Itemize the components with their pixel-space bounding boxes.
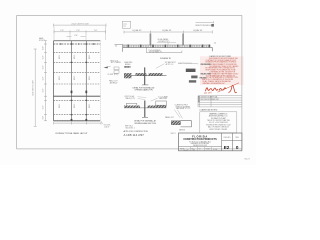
svg-text:SCHEME "A": SCHEME "A" [160, 57, 171, 60]
svg-text:7'-0": 7'-0" [94, 30, 98, 32]
svg-text:30'-0" OUT TO OUT: 30'-0" OUT TO OUT [32, 79, 34, 95]
svg-text:REV. PER RETURNED SET: REV. PER RETURNED SET [201, 99, 220, 101]
svg-text:8Z2.5: 8Z2.5 [89, 104, 91, 108]
svg-text:SHEETING ANGLE: SHEETING ANGLE [178, 62, 193, 65]
detail C deck line [124, 75, 167, 77]
svg-text:10-1-97: 10-1-97 [184, 149, 189, 151]
svg-text:CAMPBELL ENGINEERING INC.: CAMPBELL ENGINEERING INC. [202, 82, 226, 85]
detail D bracket right [156, 101, 167, 105]
detail C hatch center [136, 73, 147, 75]
svg-text:BY OTHERS: BY OTHERS [111, 62, 122, 64]
revision table [198, 96, 242, 107]
svg-text:7'-0": 7'-0" [60, 30, 64, 32]
red signature [206, 88, 219, 91]
svg-text:8" GIRT (TYP): 8" GIRT (TYP) [108, 74, 119, 76]
plan bay dimension line [54, 30, 106, 33]
svg-text:ANGLE: ANGLE [125, 63, 131, 66]
svg-text:ERECTION DWG. E-2: ERECTION DWG. E-2 [196, 25, 214, 27]
bottom edge ticks [55, 120, 98, 122]
elevation post 2 [182, 34, 184, 46]
small detail boxes right of plan [114, 67, 119, 70]
svg-text:8Z2.5: 8Z2.5 [59, 55, 61, 59]
sheet border [17, 16, 242, 149]
svg-text:LOADING: AS NOTED: LOADING: AS NOTED [199, 109, 217, 112]
svg-text:SEE PLAN: SEE PLAN [159, 97, 167, 100]
dark label box [186, 69, 196, 72]
svg-text:OPENING JAMB (TYP): OPENING JAMB (TYP) [134, 89, 153, 92]
eave strut band [123, 45, 211, 47]
svg-text:7'-0": 7'-0" [76, 30, 80, 32]
detail D bracket left [126, 103, 137, 105]
svg-text:DET. B: DET. B [179, 130, 185, 132]
plan interior column line 2 [85, 41, 87, 121]
svg-text:30 FT.J: 30 FT.J [171, 133, 176, 135]
svg-text:No.07: No.07 [245, 158, 251, 160]
purlin row dark top [54, 43, 101, 45]
svg-text:5'-0": 5'-0" [43, 55, 45, 59]
svg-text:DWG NO.: DWG NO. [224, 137, 232, 139]
project info box [200, 112, 237, 133]
svg-text:EQUAL SP.: EQUAL SP. [133, 29, 143, 32]
detail C hatch left [124, 73, 132, 75]
svg-text:1'-4: 1'-4 [115, 45, 118, 47]
svg-text:FURNISH TYPICAL PANEL LAYOUT: FURNISH TYPICAL PANEL LAYOUT [55, 132, 88, 135]
detail C hatch right [149, 73, 163, 75]
purlin seats on band [128, 45, 211, 48]
svg-text:8Z2.5: 8Z2.5 [74, 55, 76, 59]
svg-text:8Z2.5: 8Z2.5 [74, 76, 76, 80]
svg-text:3'-0": 3'-0" [43, 116, 45, 120]
detail B wall section [171, 121, 180, 125]
section arrow [104, 66, 109, 68]
framing plan outline [54, 41, 101, 121]
plan right edge (open) [99, 41, 101, 121]
purlin size labels in plan [59, 55, 91, 108]
svg-text:8Z2.5: 8Z2.5 [59, 104, 61, 108]
svg-text:Oct 1/97: Oct 1/97 [204, 91, 213, 95]
svg-text:0: 0 [236, 145, 239, 150]
svg-text:EQUAL SP.: EQUAL SP. [193, 29, 203, 32]
svg-text:1'-4: 1'-4 [214, 43, 217, 45]
svg-text:CONSTRUCTION PRODUCTS: CONSTRUCTION PRODUCTS [183, 138, 217, 141]
detail C post [144, 67, 146, 85]
svg-text:5'-0": 5'-0" [43, 105, 45, 109]
stamp pink wash [200, 56, 244, 85]
svg-text:BLDG NO. 1: BLDG NO. 1 [126, 128, 135, 130]
purlin clips [60, 43, 94, 115]
svg-text:REVIEWED: REVIEWED [201, 64, 212, 66]
left dimension line [44, 41, 47, 121]
svg-text:EQUAL SP.: EQUAL SP. [162, 29, 172, 32]
elevation dimension line [124, 31, 212, 34]
brace bracket below band [145, 47, 147, 52]
svg-text:OPENING HEAD SECTION: OPENING HEAD SECTION [134, 122, 157, 125]
svg-text:AT 12" O.C.: AT 12" O.C. [166, 63, 175, 66]
dark text fragment 2 [191, 76, 197, 79]
note top right [196, 21, 214, 23]
svg-text:8Z2.5: 8Z2.5 [59, 76, 61, 80]
purlin dashed rows [54, 52, 101, 114]
plan interior column line 1 [71, 41, 73, 121]
bottom dimension line [54, 122, 102, 125]
plan overall dimension [54, 24, 107, 27]
svg-text:8Z2.5: 8Z2.5 [89, 76, 91, 80]
svg-text:REVISE: REVISE [200, 78, 208, 80]
review stamp [202, 58, 239, 85]
svg-text:ERECTION BY OTHERS: ERECTION BY OTHERS [210, 129, 228, 131]
frame beam line [54, 95, 101, 97]
svg-text:4'-0": 4'-0" [43, 46, 45, 50]
dark text fragment 3 [189, 80, 196, 82]
right end post [211, 47, 213, 51]
legend box top [122, 21, 130, 28]
detail B trim profile [181, 121, 192, 127]
svg-text:5'-0": 5'-0" [43, 76, 45, 80]
svg-text:NONE: NONE [213, 149, 217, 151]
detail D deck line [124, 107, 166, 109]
elevation left end step [115, 43, 123, 45]
svg-text:A 1FB 114 2/97: A 1FB 114 2/97 [124, 133, 145, 137]
dimension extension lines [54, 26, 106, 40]
svg-text:AS REQD: AS REQD [110, 81, 118, 84]
TOS note [101, 121, 103, 124]
svg-text:TRACK (TYP): TRACK (TYP) [125, 97, 135, 100]
detail D post [144, 101, 146, 118]
detail C hatch below [124, 76, 132, 78]
svg-text:AT EA. PANEL PT.: AT EA. PANEL PT. [149, 50, 162, 53]
plan bottom edge [54, 120, 101, 122]
detail D deck hatch right [148, 106, 167, 108]
elevation post 1 [149, 34, 151, 46]
svg-text:100'-0": 100'-0" [104, 126, 109, 128]
svg-text:5'-0": 5'-0" [43, 88, 45, 92]
svg-text:8Z2.5: 8Z2.5 [74, 104, 76, 108]
svg-text:PANEL CLIP: PANEL CLIP [165, 116, 175, 119]
svg-text:5'-0": 5'-0" [43, 65, 45, 69]
column blobs [71, 91, 88, 122]
svg-text:REJECTED: REJECTED [201, 73, 212, 75]
svg-text:E2: E2 [224, 145, 230, 150]
svg-text:8Z2.5: 8Z2.5 [89, 55, 91, 59]
outer left dimension [34, 49, 37, 126]
svg-text:FASTEN AT 12" O.C.: FASTEN AT 12" O.C. [176, 107, 191, 110]
title block bottom row [191, 147, 212, 151]
svg-text:PHONE 813-555-0107: PHONE 813-555-0107 [193, 145, 207, 147]
svg-text:21'-0" OUT TO OUT: 21'-0" OUT TO OUT [71, 23, 89, 25]
svg-text:2'-6": 2'-6" [74, 35, 78, 37]
detail C mini band [124, 66, 131, 67]
title block [179, 133, 242, 151]
detail C leader [156, 64, 165, 69]
detail D deck hatch left [124, 106, 140, 108]
